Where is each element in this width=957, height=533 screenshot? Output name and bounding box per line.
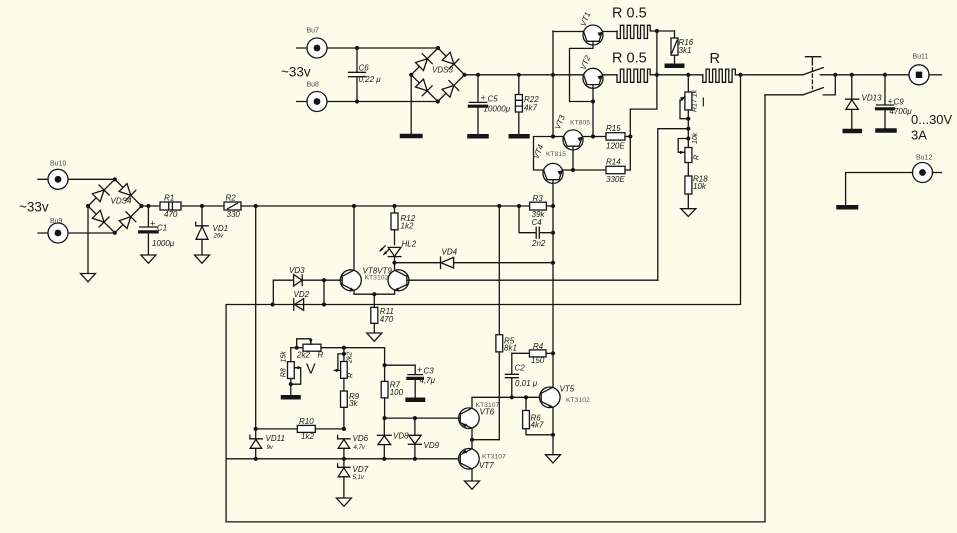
svg-text:C1: C1: [157, 223, 167, 232]
svg-text:Bu10: Bu10: [50, 160, 66, 167]
connector Bu8: [297, 81, 357, 111]
connector Bu10: [38, 160, 115, 189]
svg-text:2k2: 2k2: [296, 351, 310, 360]
resistor R18: [685, 174, 708, 208]
zener diode VD1: [196, 204, 228, 255]
svg-text:R 0.5: R 0.5: [612, 6, 647, 22]
svg-text:R: R: [710, 51, 720, 67]
zener diode VD6: [338, 434, 369, 459]
potentiometer 2k2 R (horizontal, V adjust): [291, 339, 344, 360]
svg-text:Bu9: Bu9: [50, 218, 63, 225]
ground C5: [470, 134, 487, 139]
ground C3: [408, 398, 423, 403]
diode VD13: [846, 73, 882, 129]
connector Bu9: [38, 218, 115, 243]
svg-text:150: 150: [531, 356, 545, 365]
wire diode pair brackets: [273, 280, 324, 304]
svg-text:KT815: KT815: [546, 151, 566, 158]
svg-text:+: +: [150, 219, 155, 229]
svg-text:R1: R1: [164, 194, 174, 203]
svg-text:4,7μ: 4,7μ: [420, 376, 436, 385]
svg-text:C5: C5: [488, 94, 499, 103]
svg-text:10k: 10k: [693, 182, 707, 191]
ground R16: [667, 64, 682, 69]
svg-text:4,7v: 4,7v: [354, 445, 366, 451]
svg-text:V: V: [306, 362, 316, 378]
switch lower pole: [765, 73, 837, 95]
svg-text:4k7: 4k7: [524, 104, 537, 113]
switch actuator T-bar with dashed link: [806, 57, 821, 89]
wire Bu7 to bridge top: [357, 47, 438, 49]
svg-text:VD11: VD11: [266, 434, 285, 443]
transistor VT1: [553, 11, 617, 102]
resistor R2: [224, 194, 256, 219]
wire VT6 collector to VT5 base: [472, 396, 541, 398]
resistor R10: [254, 417, 346, 441]
connector Bu12: [846, 155, 942, 206]
svg-text:VD2: VD2: [294, 290, 310, 299]
transistor VT9 (mirrored): [374, 263, 658, 295]
ground VDS3 negative: [402, 75, 420, 136]
wire rectified rail to VT2 base: [465, 74, 585, 76]
bridge rectifier VDS4: [86, 177, 144, 235]
svg-text:~33v: ~33v: [281, 65, 311, 80]
wire net from VT1 output down to R15/R14 column: [630, 31, 657, 170]
transistor VT5: [540, 353, 591, 454]
ground VD13: [845, 129, 860, 134]
resistor R15: [593, 124, 632, 151]
transistor VT4: [532, 137, 573, 207]
svg-text:R 0.5: R 0.5: [612, 51, 647, 67]
svg-text:VT5: VT5: [560, 385, 575, 394]
svg-text:330E: 330E: [606, 175, 625, 184]
wire V-net to R7: [344, 348, 385, 366]
resistor R 0.5 (upper, VT1 emitter): [612, 6, 675, 39]
svg-text:R14: R14: [606, 157, 621, 166]
svg-text:10000μ: 10000μ: [484, 104, 511, 113]
connector Bu11: [909, 54, 942, 85]
svg-text:VD3: VD3: [289, 266, 305, 275]
ground Bu12: [839, 205, 857, 210]
wire Bu8 to bridge bottom: [357, 101, 438, 103]
capacitor C6: [349, 46, 382, 104]
svg-text:8k1: 8k1: [504, 344, 517, 353]
svg-text:R: R: [694, 155, 701, 160]
svg-text:KT3102: KT3102: [566, 397, 590, 404]
resistor R7: [381, 365, 403, 418]
svg-text:I: I: [702, 95, 706, 110]
svg-text:C6: C6: [359, 64, 370, 73]
ground R8: [283, 395, 299, 400]
svg-text:470: 470: [380, 315, 394, 324]
wire R3/C4 column down to R4 node: [552, 206, 554, 353]
svg-text:R4: R4: [533, 342, 544, 351]
svg-text:2k2: 2k2: [347, 352, 354, 364]
svg-text:VDS4: VDS4: [111, 196, 132, 205]
ground VD1 (arrow): [195, 255, 210, 263]
capacitor C5: [469, 73, 510, 134]
svg-text:Bu8: Bu8: [307, 81, 320, 88]
svg-text:VD7: VD7: [353, 465, 369, 474]
ground R11 (arrow): [367, 333, 382, 341]
wire feedback loop (border): [226, 75, 803, 522]
connector Bu7: [297, 28, 357, 59]
resistor R9: [341, 391, 360, 429]
switch (2-pole) upper contact: [803, 68, 835, 75]
anti-parallel diode VD3: [273, 266, 341, 286]
resistor R22: [515, 73, 539, 134]
svg-text:0,22 μ: 0,22 μ: [359, 75, 382, 84]
capacitor C3: [383, 363, 436, 398]
resistor R (output series): [703, 51, 803, 82]
svg-text:VD13: VD13: [862, 94, 883, 103]
resistor R 0.5 (lower, VT2 emitter): [612, 51, 703, 83]
svg-text:R: R: [348, 373, 355, 378]
svg-text:1k2: 1k2: [401, 221, 414, 230]
resistor R1: [160, 194, 224, 219]
svg-text:VT7: VT7: [479, 461, 494, 470]
svg-text:R: R: [318, 351, 324, 360]
svg-text:3k: 3k: [349, 399, 358, 408]
anti-parallel diode VD2: [271, 290, 327, 310]
resistor R4: [512, 342, 555, 365]
ground VD7 (arrow): [336, 498, 351, 506]
capacitor C1: [140, 204, 175, 255]
svg-text:5,1v: 5,1v: [353, 475, 365, 481]
ground C9: [878, 128, 895, 133]
svg-text:330: 330: [227, 210, 241, 219]
svg-text:VD1: VD1: [213, 224, 229, 233]
resistor R11: [371, 292, 394, 333]
ground R18 (arrow): [681, 209, 696, 217]
transistor VT2: [579, 54, 617, 137]
potentiometer R8 15k: [280, 348, 300, 395]
transistor VT3: [553, 113, 595, 172]
capacitor C2: [505, 353, 537, 399]
wire VT9 base sense line: [658, 129, 687, 281]
LED HL2: [380, 239, 417, 265]
svg-text:3A: 3A: [911, 128, 927, 143]
potentiometer R 10k: [678, 132, 700, 176]
svg-text:0...30V: 0...30V: [911, 112, 953, 127]
wire base line to VT6: [383, 416, 460, 420]
node: base bus riser x553: [551, 31, 555, 139]
svg-text:VD8: VD8: [393, 432, 409, 441]
node VT1 output junction: [655, 29, 659, 33]
svg-text:VDS3: VDS3: [432, 66, 453, 75]
svg-text:Bu7: Bu7: [307, 28, 320, 35]
svg-text:9v: 9v: [267, 445, 274, 451]
svg-text:KT3107: KT3107: [482, 453, 506, 460]
diode VD8: [377, 418, 409, 459]
diode VD4: [395, 248, 556, 269]
ground C1 (arrow): [141, 255, 156, 263]
potentiometer R17 1k: [680, 75, 699, 148]
transistor VT6: [459, 397, 500, 442]
svg-text:KT3102: KT3102: [365, 274, 389, 281]
wire main mid rail R2 to R3: [254, 204, 530, 208]
svg-text:10k: 10k: [692, 132, 699, 144]
svg-text:R3: R3: [533, 194, 544, 203]
svg-text:C2: C2: [515, 363, 526, 372]
svg-text:VD6: VD6: [353, 434, 369, 443]
wire rail to output: [835, 74, 909, 76]
node R17 tap on rail: [686, 73, 690, 77]
svg-text:2n2: 2n2: [531, 239, 546, 248]
svg-text:120E: 120E: [606, 141, 625, 150]
svg-text:470: 470: [164, 210, 178, 219]
svg-text:VD4: VD4: [442, 248, 458, 257]
svg-text:Bu12: Bu12: [916, 155, 932, 162]
svg-text:15k: 15k: [280, 351, 287, 363]
svg-text:1000μ: 1000μ: [152, 239, 175, 248]
potentiometer R 2k2 (vertical): [334, 346, 354, 391]
svg-text:0,01 μ: 0,01 μ: [515, 379, 538, 388]
svg-text:VD9: VD9: [424, 441, 440, 450]
svg-text:HL2: HL2: [402, 239, 417, 248]
svg-text:C9: C9: [894, 97, 905, 106]
resistor R5: [496, 206, 517, 440]
bridge rectifier VDS3: [409, 46, 467, 104]
svg-text:R15: R15: [606, 124, 621, 133]
wire bridge to R1: [142, 205, 161, 207]
resistor R12: [391, 206, 416, 245]
node second R0.5 output: [655, 73, 659, 77]
svg-text:26v: 26v: [213, 233, 225, 239]
capacitor C4: [519, 206, 555, 248]
node feedback tap after R: [738, 73, 742, 77]
ground VDS4 negative (arrow): [81, 206, 96, 282]
ground VT7 (arrow): [465, 481, 480, 489]
svg-text:+: +: [481, 93, 486, 103]
svg-text:R8: R8: [280, 368, 287, 377]
svg-text:4k7: 4k7: [531, 421, 544, 430]
svg-text:R2: R2: [226, 194, 237, 203]
ground R22: [511, 134, 528, 139]
svg-text:~33v: ~33v: [19, 200, 49, 215]
diode VD9: [408, 418, 439, 459]
transistor VT8: [340, 206, 392, 294]
svg-text:C4: C4: [532, 218, 543, 227]
zener diode VD7: [338, 459, 369, 498]
capacitor C9: [877, 73, 913, 129]
resistor R6: [523, 395, 553, 435]
svg-text:Bu11: Bu11: [913, 54, 929, 61]
svg-text:4700μ: 4700μ: [890, 107, 913, 116]
resistor R16: [671, 31, 694, 64]
svg-text:KT805: KT805: [570, 120, 590, 127]
resistor R14: [573, 157, 630, 184]
svg-text:C3: C3: [424, 367, 435, 376]
svg-text:1k2: 1k2: [301, 432, 314, 441]
svg-text:+: +: [417, 365, 422, 375]
zener diode VD11: [250, 429, 285, 459]
svg-text:R17 1k: R17 1k: [692, 89, 699, 112]
svg-text:R10: R10: [299, 417, 314, 426]
transistor VT7: [459, 440, 506, 481]
svg-text:3k1: 3k1: [679, 46, 692, 55]
wire ground rail y=458.8: [226, 457, 460, 461]
svg-text:+: +: [888, 97, 893, 107]
ground VT5 (arrow): [546, 455, 561, 463]
wire left long vertical from R2 node down: [255, 206, 257, 429]
svg-text:100: 100: [390, 388, 404, 397]
svg-text:VT6: VT6: [480, 408, 495, 417]
resistor R3: [530, 194, 556, 219]
